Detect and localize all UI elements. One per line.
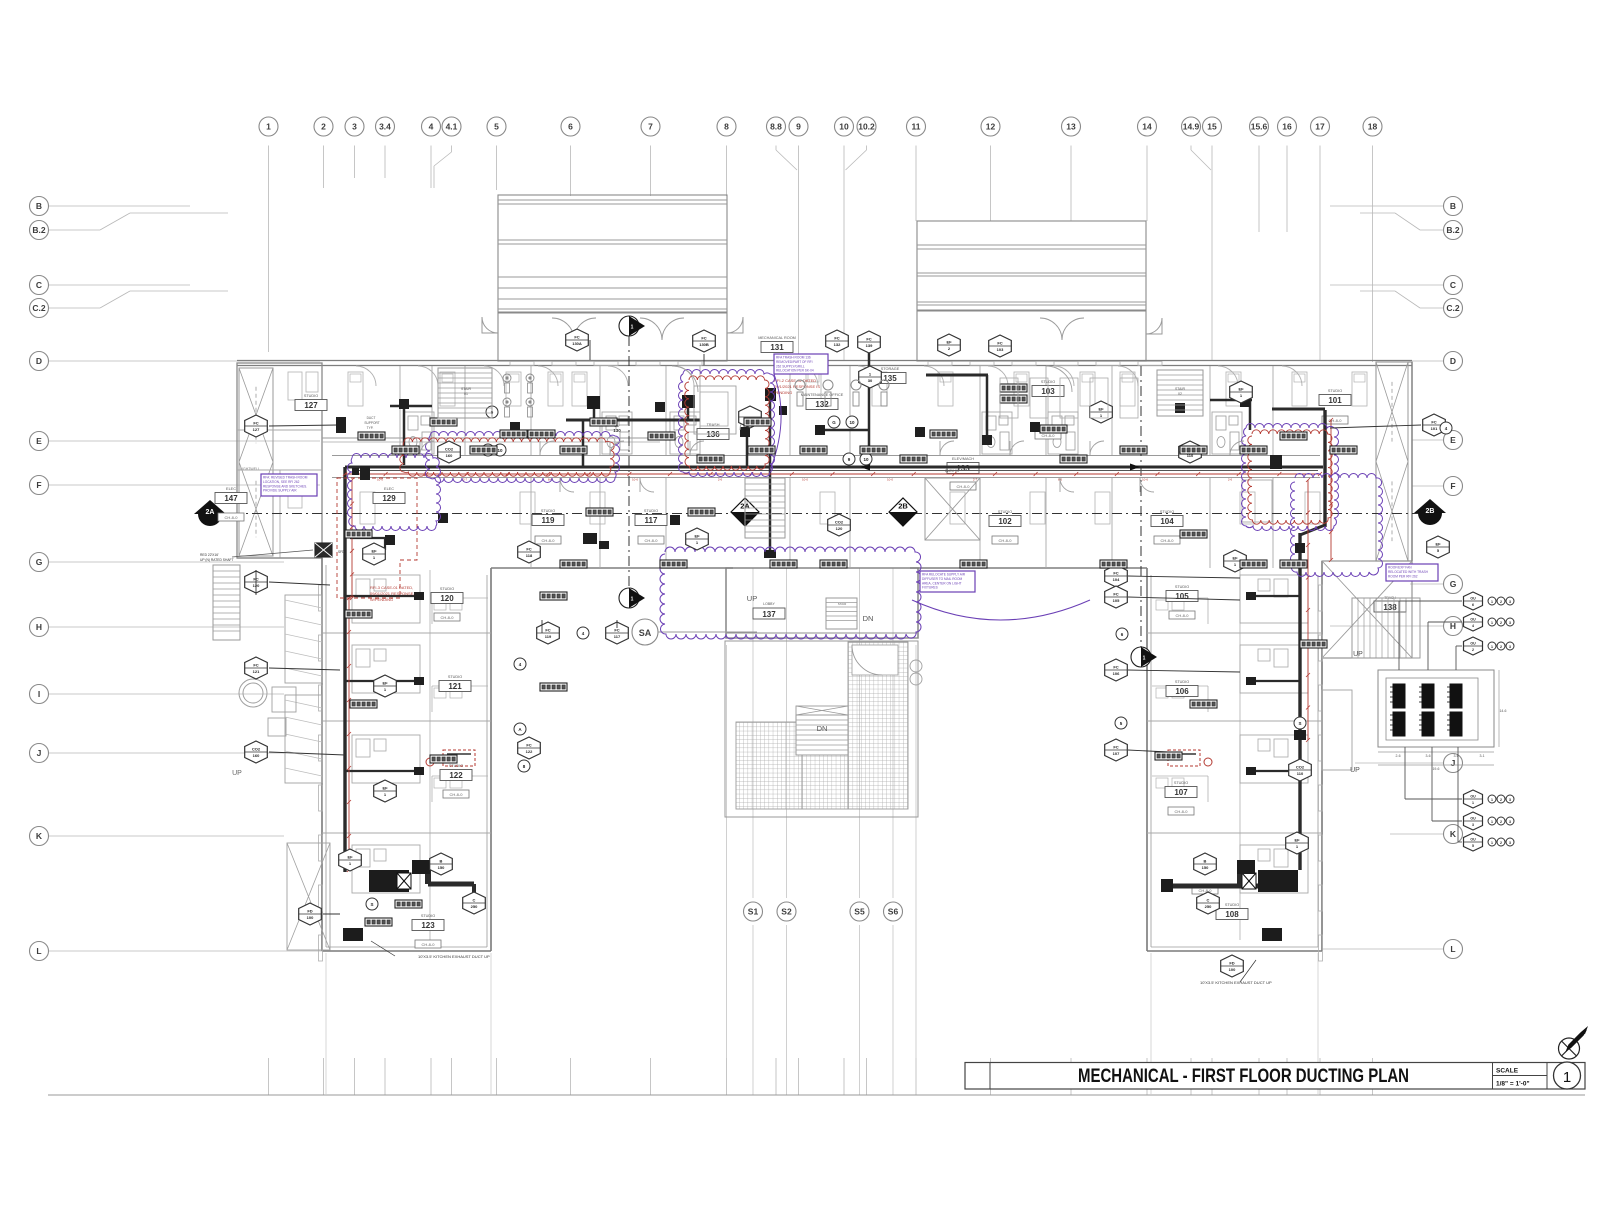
duct run room 130 xyxy=(566,395,700,467)
right side balcony xyxy=(1322,690,1352,770)
svg-text:121: 121 xyxy=(253,669,260,674)
svg-text:SA: SA xyxy=(639,628,652,638)
svg-text:FIXTURES: FIXTURES xyxy=(922,586,938,590)
svg-text:10: 10 xyxy=(849,420,855,425)
svg-text:15: 15 xyxy=(1207,122,1217,132)
svg-text:CH-8-0: CH-8-0 xyxy=(422,942,436,947)
svg-text:02: 02 xyxy=(1178,392,1182,396)
svg-text:J: J xyxy=(37,748,42,758)
svg-text:MAINTENANCE OFFICE: MAINTENANCE OFFICE xyxy=(801,393,844,397)
svg-text:B: B xyxy=(36,201,42,211)
svg-text:FC: FC xyxy=(1113,745,1118,750)
svg-text:10-0: 10-0 xyxy=(802,478,808,482)
svg-text:CH-8-0: CH-8-0 xyxy=(645,538,659,543)
svg-text:W/PENDING: W/PENDING xyxy=(370,597,393,602)
svg-text:EF: EF xyxy=(1294,838,1300,843)
svg-text:108: 108 xyxy=(1225,910,1239,919)
svg-text:C: C xyxy=(1450,280,1456,290)
svg-text:127: 127 xyxy=(253,427,260,432)
red corridor dimension xyxy=(343,472,1322,482)
svg-text:DIFFUSER TO MAIL ROOM: DIFFUSER TO MAIL ROOM xyxy=(922,577,962,581)
svg-text:1: 1 xyxy=(1491,621,1493,625)
svg-text:EF: EF xyxy=(1238,387,1244,392)
svg-text:16: 16 xyxy=(1282,122,1292,132)
svg-text:S5: S5 xyxy=(854,907,865,917)
svg-text:2: 2 xyxy=(1500,645,1502,649)
svg-text:107: 107 xyxy=(1174,788,1188,797)
section marker 2A mid xyxy=(731,498,759,526)
sfd box and shaft note xyxy=(200,466,370,562)
svg-text:EF: EF xyxy=(371,549,377,554)
svg-text:138: 138 xyxy=(1383,603,1397,612)
svg-text:CH-8-0: CH-8-0 xyxy=(441,615,455,620)
column grid lines mid xyxy=(727,645,917,1058)
svg-text:100: 100 xyxy=(1229,967,1236,972)
purple leaders xyxy=(770,374,1090,620)
svg-text:14.9: 14.9 xyxy=(1183,122,1200,132)
svg-text:129: 129 xyxy=(382,494,396,503)
svg-text:B.2: B.2 xyxy=(1446,225,1460,235)
svg-text:3: 3 xyxy=(1509,645,1511,649)
svg-text:L: L xyxy=(36,946,41,956)
svg-text:TYP.: TYP. xyxy=(367,426,374,430)
svg-text:C: C xyxy=(473,898,476,903)
svg-text:2B: 2B xyxy=(898,502,908,511)
svg-text:10'X3.5' KITCHEN EXHAUST DUCT: 10'X3.5' KITCHEN EXHAUST DUCT UP xyxy=(1200,980,1272,985)
svg-text:ELEV/MACH: ELEV/MACH xyxy=(952,457,974,461)
svg-text:120: 120 xyxy=(440,594,454,603)
column grid lines xyxy=(269,146,1373,1096)
svg-text:DN: DN xyxy=(863,614,874,623)
svg-text:118: 118 xyxy=(526,553,533,558)
svg-text:S: S xyxy=(1298,721,1301,726)
svg-text:106: 106 xyxy=(1113,671,1120,676)
svg-text:OU: OU xyxy=(1470,618,1476,622)
svg-text:CH-8-0: CH-8-0 xyxy=(1175,809,1189,814)
purple cloud lobby xyxy=(660,547,921,639)
svg-text:119: 119 xyxy=(542,516,555,525)
red cloud corridor left xyxy=(400,438,614,476)
svg-text:FD: FD xyxy=(307,909,312,914)
svg-text:10: 10 xyxy=(497,448,503,453)
svg-text:H: H xyxy=(36,622,42,632)
svg-text:8.8: 8.8 xyxy=(770,122,782,132)
right roof deck xyxy=(917,221,1162,361)
svg-text:MECHANICAL ROOM: MECHANICAL ROOM xyxy=(758,336,796,340)
svg-text:135: 135 xyxy=(883,374,897,383)
section line dashed xyxy=(212,513,1430,515)
svg-text:UP: UP xyxy=(747,594,757,603)
trash room 138 xyxy=(1322,561,1412,658)
left wing walls xyxy=(322,558,491,951)
svg-text:RED 22'X16': RED 22'X16' xyxy=(200,553,219,557)
svg-text:ROOM PER RFI 262: ROOM PER RFI 262 xyxy=(1388,574,1418,578)
svg-text:12: 12 xyxy=(986,122,996,132)
svg-text:FC: FC xyxy=(866,337,871,342)
svg-text:D: D xyxy=(36,356,42,366)
svg-text:STUDIO: STUDIO xyxy=(1175,585,1189,589)
svg-text:RELOCATION PER SK-04: RELOCATION PER SK-04 xyxy=(776,369,814,373)
svg-text:10-6: 10-6 xyxy=(1142,478,1148,482)
svg-text:J: J xyxy=(1451,758,1456,768)
svg-text:150: 150 xyxy=(1202,865,1209,870)
right lightwell block xyxy=(1376,362,1412,561)
svg-text:FC: FC xyxy=(574,335,579,340)
left side balconies xyxy=(213,565,330,950)
svg-text:CH-8-0: CH-8-0 xyxy=(1161,538,1175,543)
svg-text:EF: EF xyxy=(1098,407,1104,412)
svg-text:3: 3 xyxy=(1472,823,1474,827)
kitchen exhaust note right xyxy=(1200,960,1272,985)
stair grid lines S xyxy=(326,568,1318,1095)
svg-text:2A: 2A xyxy=(206,509,215,516)
svg-text:105: 105 xyxy=(1175,592,1189,601)
column bubbles xyxy=(259,117,1382,136)
svg-text:3: 3 xyxy=(1509,621,1511,625)
svg-text:6: 6 xyxy=(1472,603,1474,607)
svg-text:10.2: 10.2 xyxy=(858,122,875,132)
svg-text:250: 250 xyxy=(471,904,478,909)
vert dashed line col7 xyxy=(628,336,630,588)
svg-text:RFA TRASH ROOM 136: RFA TRASH ROOM 136 xyxy=(776,356,811,360)
svg-text:09/01/2021 RESPONSE,: 09/01/2021 RESPONSE, xyxy=(370,591,414,596)
svg-text:STUDIO: STUDIO xyxy=(1225,903,1239,907)
svg-text:104: 104 xyxy=(1113,577,1120,582)
svg-text:OU: OU xyxy=(1470,795,1476,799)
gym dumbbells xyxy=(503,374,534,417)
svg-text:H: H xyxy=(1450,621,1456,631)
left wing riser duct xyxy=(345,467,424,872)
svg-text:130B: 130B xyxy=(699,342,709,347)
svg-text:101: 101 xyxy=(1328,396,1342,405)
svg-text:106: 106 xyxy=(1175,687,1189,696)
svg-text:4: 4 xyxy=(1472,624,1474,628)
svg-text:CO2: CO2 xyxy=(1296,765,1305,770)
duct size labels xyxy=(345,384,1357,926)
red dashed fc box right xyxy=(1168,750,1212,766)
svg-text:C.2: C.2 xyxy=(32,303,46,313)
svg-text:B: B xyxy=(1450,201,1456,211)
svg-text:FC: FC xyxy=(997,341,1002,346)
door swings top rooms xyxy=(672,366,1072,392)
svg-text:5: 5 xyxy=(494,122,499,132)
svg-text:G: G xyxy=(832,420,836,425)
svg-text:1: 1 xyxy=(1491,841,1493,845)
svg-text:CH-8-0: CH-8-0 xyxy=(1042,433,1056,438)
svg-text:CH-8-0: CH-8-0 xyxy=(225,515,239,520)
svg-text:130: 130 xyxy=(613,428,621,433)
svg-text:S6: S6 xyxy=(888,907,899,917)
svg-text:1: 1 xyxy=(631,325,634,331)
svg-text:FD: FD xyxy=(1229,961,1234,966)
svg-text:10-0: 10-0 xyxy=(887,478,893,482)
red note top xyxy=(774,378,820,395)
OU leader lines xyxy=(1399,601,1462,842)
svg-text:S2: S2 xyxy=(781,907,792,917)
svg-text:14-6: 14-6 xyxy=(1499,709,1506,713)
svg-text:STUDIO: STUDIO xyxy=(998,510,1012,514)
svg-text:B: B xyxy=(1204,859,1207,864)
equipment room furniture xyxy=(795,378,1138,418)
svg-text:STUDIO: STUDIO xyxy=(1328,389,1342,393)
red note left xyxy=(370,585,414,602)
svg-text:FC: FC xyxy=(1113,592,1118,597)
svg-text:01: 01 xyxy=(464,392,468,396)
svg-text:2: 2 xyxy=(1500,820,1502,824)
svg-text:1: 1 xyxy=(1491,645,1493,649)
trash 136 interior xyxy=(694,386,758,434)
svg-text:D: D xyxy=(1450,356,1456,366)
svg-text:102: 102 xyxy=(998,517,1012,526)
svg-text:13: 13 xyxy=(1066,122,1076,132)
svg-text:STAIR: STAIR xyxy=(1175,387,1186,391)
red dashed fc box left xyxy=(426,750,475,766)
svg-text:SUPPORT: SUPPORT xyxy=(364,421,379,425)
svg-text:CO2: CO2 xyxy=(445,447,454,452)
svg-text:FC: FC xyxy=(834,336,839,341)
right wing ahu cluster xyxy=(1161,860,1298,941)
svg-text:3: 3 xyxy=(1509,798,1511,802)
svg-text:DN: DN xyxy=(817,724,828,733)
red right riser dims xyxy=(1306,418,1333,742)
svg-text:C: C xyxy=(36,280,42,290)
svg-text:EF: EF xyxy=(347,855,353,860)
left wing ahu cluster xyxy=(343,860,474,941)
svg-text:EF: EF xyxy=(946,340,952,345)
circle tags xyxy=(366,406,1452,910)
svg-text:UP: UP xyxy=(1350,767,1360,774)
left lightwell block xyxy=(237,363,322,558)
svg-text:250: 250 xyxy=(1205,904,1212,909)
svg-text:1: 1 xyxy=(631,597,634,603)
svg-text:STUDIO: STUDIO xyxy=(421,914,435,918)
svg-text:STUDIO: STUDIO xyxy=(440,587,454,591)
stair 01 xyxy=(438,368,492,418)
svg-text:103: 103 xyxy=(997,347,1004,352)
svg-text:STAIR: STAIR xyxy=(838,602,847,606)
duct run room 103 xyxy=(926,375,988,436)
south wall of top bar xyxy=(491,567,1147,569)
svg-text:150: 150 xyxy=(438,865,445,870)
svg-text:122: 122 xyxy=(449,771,463,780)
svg-text:E: E xyxy=(36,436,42,446)
svg-text:1: 1 xyxy=(1491,600,1493,604)
svg-text:FC: FC xyxy=(1431,420,1436,425)
svg-text:PROVIDE SUPPLY AIR: PROVIDE SUPPLY AIR xyxy=(263,489,297,493)
row grid lines left xyxy=(49,206,323,951)
kitchen exhaust note left xyxy=(371,941,490,959)
svg-text:ELEV 01: ELEV 01 xyxy=(945,469,959,473)
svg-text:EF: EF xyxy=(1232,556,1238,561)
svg-text:3: 3 xyxy=(1509,820,1511,824)
svg-text:OU: OU xyxy=(1470,642,1476,646)
svg-text:10: 10 xyxy=(863,457,869,462)
purple note lobby xyxy=(920,571,975,592)
row grid lines right xyxy=(1322,206,1444,949)
svg-text:3-1: 3-1 xyxy=(1479,754,1484,758)
svg-text:FC: FC xyxy=(1113,571,1118,576)
svg-text:18: 18 xyxy=(1368,122,1378,132)
svg-text:MECHANICAL - FIRST FLOOR DUCTI: MECHANICAL - FIRST FLOOR DUCTING PLAN xyxy=(1078,1065,1409,1087)
purple note left xyxy=(261,474,317,496)
svg-text:FC: FC xyxy=(1113,665,1118,670)
svg-text:FC: FC xyxy=(614,628,619,633)
svg-text:ELEC: ELEC xyxy=(384,487,394,491)
svg-text:G: G xyxy=(1450,579,1457,589)
svg-text:C.2: C.2 xyxy=(1446,303,1460,313)
svg-text:147: 147 xyxy=(224,494,238,503)
svg-text:1: 1 xyxy=(1491,820,1493,824)
tag leader lines xyxy=(256,340,1421,914)
svg-text:L: L xyxy=(1450,944,1455,954)
svg-text:S1: S1 xyxy=(748,907,759,917)
svg-text:121: 121 xyxy=(448,682,462,691)
svg-text:CH-8-0: CH-8-0 xyxy=(450,792,464,797)
svg-text:CO2: CO2 xyxy=(252,747,261,752)
svg-text:160: 160 xyxy=(253,753,260,758)
svg-text:FC: FC xyxy=(253,663,258,668)
svg-text:139: 139 xyxy=(866,343,873,348)
svg-text:EF: EF xyxy=(1435,542,1441,547)
svg-text:1: 1 xyxy=(1563,1069,1571,1086)
svg-text:DUCT: DUCT xyxy=(367,416,376,420)
OU tags xyxy=(1464,592,1515,851)
svg-text:131: 131 xyxy=(770,343,784,352)
sector marker 1 mid xyxy=(619,588,645,608)
right stair by trash xyxy=(1350,598,1420,774)
svg-text:3.4: 3.4 xyxy=(379,122,391,132)
svg-text:10-6: 10-6 xyxy=(632,478,638,482)
svg-text:101: 101 xyxy=(1431,426,1438,431)
svg-text:E: E xyxy=(1450,435,1456,445)
svg-text:2: 2 xyxy=(1472,648,1474,652)
stair bubbles S1 S2 S5 S6 xyxy=(744,902,903,921)
lobby stair detail xyxy=(726,594,918,638)
svg-text:2-6: 2-6 xyxy=(718,478,723,482)
svg-text:FC: FC xyxy=(526,743,531,748)
svg-text:STUDIO: STUDIO xyxy=(448,675,462,679)
svg-text:RFI-3 CASE-01 DATED,: RFI-3 CASE-01 DATED, xyxy=(370,585,413,590)
svg-text:262 SUPPLY/GRILL: 262 SUPPLY/GRILL xyxy=(776,364,805,368)
svg-text:2-7: 2-7 xyxy=(463,478,468,482)
lobby block walls xyxy=(726,568,918,638)
top bar partitions xyxy=(237,366,1273,568)
svg-text:LOBBY: LOBBY xyxy=(763,602,775,606)
svg-text:EF: EF xyxy=(694,534,700,539)
svg-text:2B: 2B xyxy=(1426,508,1435,515)
svg-text:RFA RELOCATE SUPPLY AIR: RFA RELOCATE SUPPLY AIR xyxy=(922,573,966,577)
section marker 2A left xyxy=(194,500,226,526)
svg-text:6: 6 xyxy=(568,122,573,132)
SA tag xyxy=(632,619,757,645)
svg-text:AREA, CENTER ON LIGHT: AREA, CENTER ON LIGHT xyxy=(922,581,962,585)
svg-text:30: 30 xyxy=(868,378,873,383)
right wing partitions xyxy=(1147,570,1322,940)
svg-text:S: S xyxy=(370,902,373,907)
svg-text:136: 136 xyxy=(706,430,720,439)
svg-text:PENDING: PENDING xyxy=(774,390,792,395)
svg-text:UP (N) RATED SHAFT: UP (N) RATED SHAFT xyxy=(200,558,234,562)
svg-text:4.1: 4.1 xyxy=(446,122,458,132)
svg-text:RFA: REVISED TRASH ROOM: RFA: REVISED TRASH ROOM xyxy=(263,476,308,480)
svg-text:SFD: SFD xyxy=(338,550,345,554)
svg-text:RELOCATED WITH TRASH: RELOCATED WITH TRASH xyxy=(1388,570,1429,574)
purple note right xyxy=(1386,564,1438,581)
svg-text:117: 117 xyxy=(614,634,621,639)
svg-text:CH-8-0: CH-8-0 xyxy=(542,538,556,543)
room labels xyxy=(215,336,1351,931)
svg-text:CO2: CO2 xyxy=(835,520,844,525)
svg-text:F: F xyxy=(36,480,41,490)
svg-text:1: 1 xyxy=(266,122,271,132)
svg-text:2: 2 xyxy=(321,122,326,132)
top bar wet cores xyxy=(404,412,1272,522)
window marks xyxy=(319,362,1323,962)
svg-text:8: 8 xyxy=(724,122,729,132)
svg-text:09/1/2021 RESPONSE IS: 09/1/2021 RESPONSE IS xyxy=(774,384,820,389)
red left riser dims xyxy=(347,478,354,872)
svg-text:CH-8-0: CH-8-0 xyxy=(1199,888,1213,893)
svg-text:3: 3 xyxy=(1509,841,1511,845)
svg-text:SCALE: SCALE xyxy=(1496,1068,1519,1075)
svg-text:15.6: 15.6 xyxy=(1251,122,1268,132)
section marker 2B right xyxy=(1414,499,1446,525)
svg-text:2: 2 xyxy=(1500,600,1502,604)
svg-text:OU: OU xyxy=(1470,817,1476,821)
svg-text:K: K xyxy=(1450,829,1457,839)
red cloud trash 136 xyxy=(685,376,769,470)
vert dashed line right xyxy=(1140,366,1142,647)
svg-text:100: 100 xyxy=(307,915,314,920)
duct lobby drop xyxy=(747,398,776,558)
svg-text:2: 2 xyxy=(1500,841,1502,845)
left roof deck xyxy=(482,195,743,361)
svg-text:LOCATION, SEE RFI 262: LOCATION, SEE RFI 262 xyxy=(263,480,300,484)
svg-text:5: 5 xyxy=(1472,844,1474,848)
north wall xyxy=(237,361,1412,366)
stair 02 xyxy=(1157,370,1203,416)
svg-text:STUDIO: STUDIO xyxy=(1174,781,1188,785)
svg-text:117: 117 xyxy=(645,516,658,525)
purple cloud right xyxy=(1242,424,1383,577)
svg-text:132: 132 xyxy=(834,342,841,347)
ceiling height boxes xyxy=(218,416,1348,948)
svg-text:STUDIO: STUDIO xyxy=(304,394,318,398)
equipment tags xyxy=(245,329,1450,977)
base line bottom xyxy=(48,1094,1585,1096)
row bubbles left xyxy=(30,197,49,961)
svg-text:137: 137 xyxy=(762,610,776,619)
right wing riser duct xyxy=(1246,409,1325,870)
svg-text:9: 9 xyxy=(796,122,801,132)
purple note top xyxy=(774,354,828,374)
svg-text:CH-8-0: CH-8-0 xyxy=(957,484,971,489)
door swings corridor xyxy=(420,441,1244,492)
elevator xyxy=(925,469,980,540)
svg-text:I: I xyxy=(38,689,40,699)
duct run left xyxy=(390,406,432,465)
svg-text:107: 107 xyxy=(1113,751,1120,756)
red dashed shaft outline xyxy=(337,478,417,598)
svg-text:3: 3 xyxy=(352,122,357,132)
svg-text:UP: UP xyxy=(1353,651,1363,658)
svg-text:123: 123 xyxy=(421,921,435,930)
top room door arcs xyxy=(356,366,1302,386)
svg-text:STUDIO: STUDIO xyxy=(1160,510,1174,514)
svg-text:ROOF/EXP FAN: ROOF/EXP FAN xyxy=(1388,566,1412,570)
svg-text:RFI-2 CASE-02 DATED: RFI-2 CASE-02 DATED xyxy=(774,378,816,383)
svg-text:127: 127 xyxy=(304,401,318,410)
